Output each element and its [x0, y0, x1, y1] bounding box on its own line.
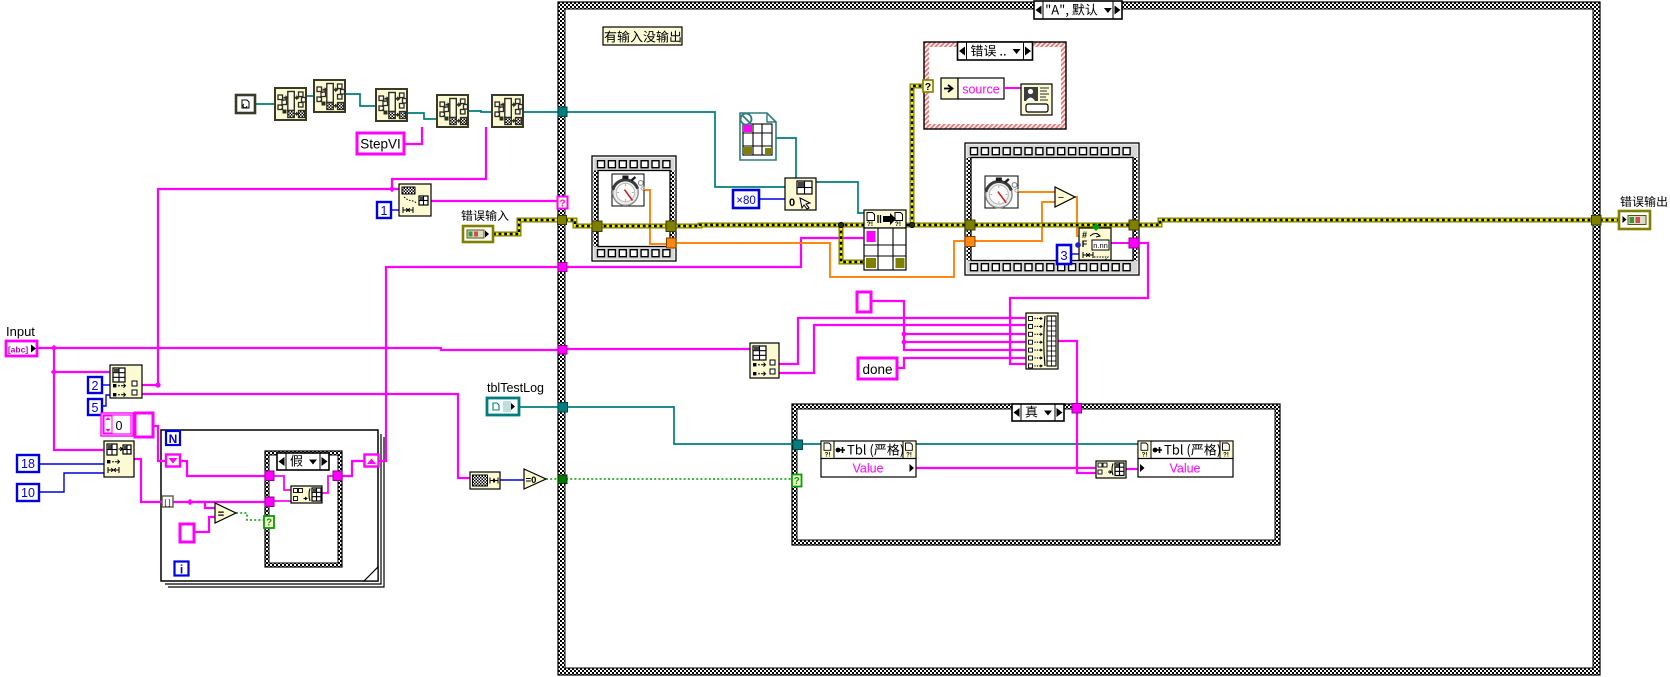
property node B: Tbl(严格) Value write	[1138, 441, 1233, 459]
wire: blue 18	[39, 463, 104, 465]
svg-text:?: ?	[559, 199, 565, 210]
wire: reshape out to loop tunnel	[134, 459, 162, 502]
svg-text:0: 0	[116, 419, 123, 433]
tunnel: true case teal	[793, 440, 803, 450]
true case selector terminal	[792, 475, 802, 487]
subVI icon 1	[275, 88, 306, 120]
wire: property Value to replace	[916, 467, 1096, 469]
wire: blue 2	[101, 384, 110, 386]
subVI icon 3	[376, 89, 407, 121]
replace element node (false case)	[291, 486, 322, 503]
equals node	[215, 503, 236, 523]
wire: concat out down into true case	[1058, 341, 1096, 473]
case structure 真 (true)	[792, 404, 1280, 545]
tunnel: film1 orange	[667, 238, 677, 248]
string constants 18 / 10	[17, 455, 39, 472]
blank string constant	[135, 413, 153, 437]
wire: green equals to false case selector	[236, 513, 264, 520]
tunnel: true case top magenta	[1072, 404, 1082, 414]
svg-text:−: −	[1058, 192, 1064, 204]
tunnel: tblTestLog	[558, 403, 568, 413]
svg-text:18: 18	[21, 457, 35, 471]
svg-text:Input: Input	[6, 324, 35, 339]
minus/convert triangle film2	[1055, 187, 1075, 207]
flat sequence frame 2	[965, 143, 1139, 275]
wire: blue strlen out	[499, 479, 524, 481]
wire: teal from table constant down	[776, 138, 796, 178]
wire: teal refnum across true case	[802, 443, 1140, 445]
case selector terminal ? (pink)	[558, 197, 568, 209]
svg-text:10: 10	[21, 486, 35, 500]
wire: branch to reshape node	[54, 372, 104, 450]
svg-text:i: i	[180, 563, 183, 577]
tunnel: film2 orange	[965, 237, 975, 247]
equals zero node	[524, 469, 546, 489]
shift register right	[365, 455, 379, 467]
svg-text:Value: Value	[852, 462, 883, 476]
svg-text:?!: ?!	[895, 221, 901, 228]
svg-text:[ ]: [ ]	[164, 498, 170, 507]
false case selector terminal	[264, 516, 274, 528]
error in control	[463, 226, 493, 242]
tunnel: green bool	[558, 475, 567, 484]
wire: blank const to shift register	[153, 426, 166, 461]
svg-text:3: 3	[1060, 248, 1067, 263]
wire: teal inside case to table node	[566, 112, 785, 187]
svg-text:?!: ?!	[825, 453, 831, 459]
wire: inside false case	[274, 476, 291, 490]
wire: loop tunnel to equals and case	[173, 501, 265, 503]
tunnels: film1 error	[592, 221, 602, 232]
magenta tunnels on false case	[265, 471, 274, 481]
wire: index array out2 to strlen	[142, 394, 470, 478]
reshape array node	[104, 441, 134, 477]
subVI icon 5	[492, 95, 523, 127]
svg-text:=: =	[218, 509, 224, 521]
svg-text:?!: ?!	[1223, 453, 1229, 459]
numeric constant 5	[88, 399, 102, 415]
wire: index750 out1 to concat row1	[779, 318, 1026, 364]
Input string array control	[6, 341, 37, 356]
flat sequence frame 1	[592, 156, 676, 261]
svg-text:F: F	[1082, 239, 1088, 249]
wire: teal tblTestLog	[519, 406, 558, 408]
wire: blue 10	[39, 473, 104, 492]
svg-text:source: source	[962, 83, 1000, 97]
wire: blue x80	[759, 198, 785, 200]
wire: pink inside to big VI magenta cell	[567, 238, 869, 267]
wire: pink node output to case selector	[431, 200, 558, 202]
selector label "A", 默认	[1034, 1, 1122, 19]
svg-text:?!: ?!	[906, 453, 912, 459]
error case ? terminal	[923, 80, 933, 92]
loop array tunnel []	[162, 496, 173, 507]
tunnel: pink loop data	[558, 263, 567, 272]
tunnel: error out	[1592, 216, 1602, 226]
svg-text:?: ?	[794, 476, 800, 487]
svg-text:[abc]: [abc]	[8, 345, 28, 355]
wire: teal chain top-left	[254, 103, 275, 105]
tunnel: film2 magenta out	[1129, 238, 1139, 248]
wire: pink long branch to left	[158, 189, 392, 385]
wire: orange film1 stopwatch	[644, 190, 667, 244]
svg-text:?!: ?!	[1142, 453, 1148, 459]
svg-text:2: 2	[92, 379, 99, 393]
case structure 错误 (error case, red striped border)	[924, 42, 1066, 129]
subVI icon 4	[437, 95, 468, 127]
wire: fmt node pink out film2	[1111, 242, 1129, 244]
wire: index750 out2 to concat row2	[779, 325, 1026, 373]
svg-text:?: ?	[925, 81, 931, 93]
array-to-cluster node	[399, 184, 431, 216]
wire: done to row6	[897, 358, 1026, 368]
svg-text:?: ?	[266, 518, 272, 529]
index array node (2,5)	[110, 365, 142, 398]
stopwatch 2	[985, 176, 1018, 208]
wire: index array out1	[142, 384, 158, 386]
svg-text:×80: ×80	[736, 195, 756, 207]
junction dots	[51, 345, 57, 351]
错误输出 label	[1620, 196, 1666, 207]
tunnels: teal chain	[558, 107, 567, 117]
svg-text:=0: =0	[526, 475, 537, 486]
numeric constant 2	[88, 377, 102, 393]
wire: orange film2 internal	[1018, 191, 1055, 193]
wire: shift reg loopback up to case border	[378, 267, 558, 461]
wire: replace out to property write	[1126, 468, 1141, 470]
wire: Input string main	[37, 348, 558, 350]
svg-text:done: done	[862, 362, 892, 377]
wire: blank const rows 3-5	[871, 301, 1026, 350]
wire: film2 loopback to row7	[1010, 243, 1148, 364]
wire: error cluster main run	[493, 220, 559, 234]
iteration terminal i	[175, 562, 189, 576]
table constant with prohibition sign	[740, 113, 776, 160]
blank string constant 2	[180, 524, 194, 542]
case structure 假 (false)	[265, 451, 342, 567]
blank string constant 3	[857, 292, 871, 312]
loop count terminal N	[166, 431, 180, 445]
wire: blue 1	[390, 209, 399, 211]
tunnels: film2 error	[965, 220, 975, 230]
svg-text:N: N	[169, 432, 178, 446]
svg-text:tblTestLog: tblTestLog	[487, 381, 544, 395]
shift register left	[166, 455, 180, 467]
numeric constant 1	[377, 202, 391, 218]
replace array subset node (true case)	[1096, 461, 1126, 478]
big VI: write table	[864, 210, 906, 228]
x80 constant	[733, 190, 759, 208]
wire: blank const2 to equals	[194, 517, 215, 532]
done string constant	[858, 358, 897, 379]
document constant	[236, 95, 255, 113]
tblTestLog refnum control	[487, 398, 519, 415]
tunnel: input string	[558, 346, 567, 355]
error out indicator	[1619, 211, 1650, 229]
numeric constant 0 with increment	[101, 413, 133, 436]
stopwatch 1	[612, 174, 644, 206]
index array node 750	[750, 343, 779, 378]
wire: teal table node to big VI	[816, 182, 864, 213]
numeric constant 3	[1057, 245, 1071, 264]
build array / concatenate node	[1026, 313, 1058, 369]
svg-text:0: 0	[789, 197, 795, 209]
unbundle source	[941, 78, 958, 99]
wire: blue 3	[1071, 253, 1079, 255]
wire: error branch into big VI lower cell	[841, 225, 864, 262]
free label 有输入没输出	[603, 27, 682, 45]
svg-text:Value: Value	[1169, 462, 1200, 476]
wire: branch to index array	[54, 348, 110, 372]
wire: shift reg down to case tunnel	[180, 461, 265, 476]
wire: orange across to film2	[676, 241, 965, 277]
get cell node	[785, 178, 816, 210]
svg-text:5: 5	[92, 401, 99, 415]
format into string node	[1079, 228, 1111, 260]
svg-text:StepVI: StepVI	[360, 137, 401, 152]
green junction diamond	[1092, 223, 1100, 231]
wire: StepVI pink	[404, 127, 422, 144]
svg-text:?!: ?!	[867, 221, 873, 228]
one button dialog node	[1021, 84, 1052, 115]
错误输入 label	[461, 210, 508, 221]
for loop N	[165, 434, 381, 584]
svg-text:1: 1	[381, 204, 388, 218]
wire: green =0 to true case selector	[546, 478, 558, 480]
wire: pink from chain icon5 to index node	[392, 127, 486, 189]
wire: blue 5	[101, 395, 110, 406]
StepVI constant	[357, 133, 404, 154]
wire: error branch up to error case	[912, 86, 924, 225]
string length node	[470, 472, 500, 489]
tunnel: error in	[558, 216, 567, 225]
subVI icon 2	[314, 80, 345, 112]
property node A: Tbl(严格) Value read	[821, 441, 916, 459]
svg-text:n.nn: n.nn	[1093, 241, 1108, 250]
wire: Input inside case to index node	[566, 348, 750, 350]
case structure: outer case "A",默认	[558, 2, 1600, 675]
